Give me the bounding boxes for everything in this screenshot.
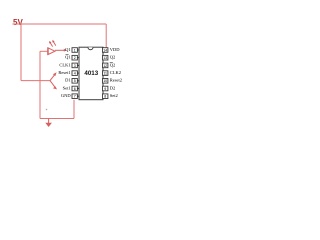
wire bottom ground run (40, 118, 74, 120)
pin 11 (CLK2) (103, 70, 122, 76)
LED D1 (48, 40, 56, 55)
svg-text:1: 1 (74, 48, 76, 52)
svg-text:VDD: VDD (110, 47, 120, 52)
wire LED cathode rail down (39, 51, 41, 118)
svg-text:CLK1: CLK1 (59, 62, 70, 67)
svg-text:Set2: Set2 (110, 93, 118, 98)
svg-text:9: 9 (104, 87, 106, 91)
wire VDD drop (105, 24, 107, 48)
pin 8 (Set2) (103, 93, 118, 99)
svg-text:Reset1: Reset1 (58, 70, 70, 75)
svg-text:2: 2 (74, 56, 76, 60)
svg-text:D1: D1 (65, 78, 71, 83)
svg-text:12: 12 (103, 64, 107, 68)
pin 10 (Reset2) (103, 78, 123, 84)
ground (45, 119, 52, 128)
pin 14 (VDD) (103, 47, 121, 53)
svg-text:7: 7 (74, 95, 76, 99)
op IC U1 4013 body (79, 47, 103, 99)
pin 1 (Q1) (65, 47, 79, 53)
svg-text:14: 14 (103, 48, 107, 52)
wire rail to LED cathode (40, 50, 47, 52)
svg-text:Q1: Q1 (65, 47, 71, 52)
svg-text:3: 3 (74, 64, 76, 68)
svg-text:11: 11 (103, 72, 107, 76)
svg-text:Reset2: Reset2 (110, 78, 122, 83)
svg-text:13: 13 (103, 56, 107, 60)
svg-text:Q2: Q2 (110, 62, 116, 67)
pin 7 (GND) (61, 93, 79, 99)
svg-text:GND: GND (61, 93, 71, 98)
svg-text:Set1: Set1 (63, 85, 71, 90)
pin 6 (Set1) (63, 85, 79, 91)
arrow to Reset1 (50, 72, 57, 80)
pin 4 (Reset1) (58, 70, 79, 76)
pin 12 (Q2 bar) (103, 62, 116, 68)
arrow to Set1 (50, 81, 57, 90)
pin 3 (CLK1) (59, 62, 79, 68)
pin 2 (Q1 bar) (65, 55, 79, 61)
svg-text:5: 5 (74, 79, 76, 83)
wire 5V branch vertical (20, 24, 22, 81)
svg-text:Q2: Q2 (110, 55, 116, 60)
svg-text:CLK2: CLK2 (110, 70, 121, 75)
wire GND pin leg (73, 100, 75, 119)
wire 5V top rail (13, 23, 107, 25)
svg-text:4: 4 (74, 72, 76, 76)
svg-text:6: 6 (74, 87, 76, 91)
svg-text:4013: 4013 (84, 70, 98, 77)
node dot (46, 109, 47, 110)
svg-text:Q1: Q1 (65, 55, 71, 60)
pin 5 (D1) (65, 78, 79, 84)
pin 9 (D2) (103, 85, 116, 91)
svg-text:10: 10 (103, 79, 107, 83)
wire LED anode to Q1 with arrowhead (55, 49, 67, 52)
svg-text:8: 8 (104, 95, 106, 99)
svg-text:5V: 5V (13, 18, 23, 27)
wire set/reset feed (21, 80, 50, 82)
svg-text:D2: D2 (110, 85, 116, 90)
pin 13 (Q2) (103, 55, 116, 61)
